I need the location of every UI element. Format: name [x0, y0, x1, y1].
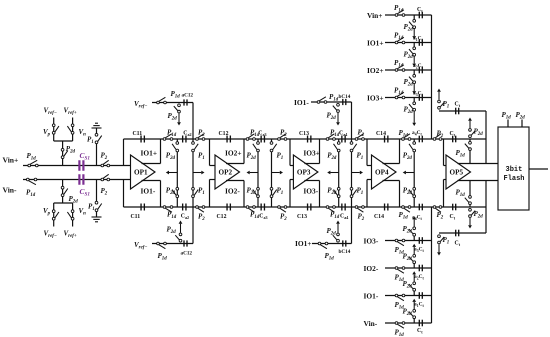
- wire IO1+ stack row: [385, 42, 432, 44]
- switch P1d Vref branch top: [157, 90, 181, 104]
- switch P1d stage3 bottom rail: [326, 206, 340, 221]
- capacitor CS1 top: [79, 151, 90, 171]
- svg-text:OP1: OP1: [134, 169, 148, 177]
- svg-text:aC12: aC12: [182, 93, 194, 99]
- switch P2d Vref branch top with Vcm arrow: [168, 104, 181, 126]
- node Vref- label top: [44, 107, 57, 117]
- switch P1d IO3+ row: [394, 87, 405, 99]
- node Vin- stack label: [364, 319, 378, 328]
- switch P1d IO2- row: [395, 267, 405, 284]
- capacitor bC14 top: [339, 94, 351, 105]
- node IO3- stack label: [364, 236, 379, 245]
- switch P1d stage4 bottom rail: [399, 206, 411, 221]
- wire OP5 output bottom: [458, 180, 499, 182]
- svg-text:bC14: bC14: [339, 249, 351, 255]
- switch P2d label top stage2: [247, 152, 257, 162]
- wire summing bus top: [431, 15, 433, 139]
- svg-text:IO3-: IO3-: [364, 236, 379, 245]
- switch Vp bottom: [43, 203, 59, 227]
- svg-text:Ct: Ct: [417, 328, 423, 335]
- svg-text:IO3+: IO3+: [367, 93, 384, 102]
- svg-text:Flash: Flash: [504, 175, 525, 183]
- switch P1d stage1 bottom rail: [163, 206, 177, 221]
- svg-text:IO2-: IO2-: [364, 264, 379, 273]
- svg-text:C14: C14: [376, 131, 386, 137]
- capacitor Ca2 bottom: [181, 204, 189, 221]
- wire Vin+ input rail: [23, 165, 131, 167]
- node IO1- output label: [141, 187, 156, 196]
- switch P1 label bottom stage1: [198, 187, 205, 197]
- wire IO2- stack row: [385, 267, 432, 269]
- arrow Vcm right stage1: [193, 171, 205, 175]
- wire OP2 input connector top: [210, 139, 216, 166]
- capacitor a1Ct IO1- row: [414, 292, 425, 308]
- svg-text:Ct: Ct: [450, 214, 456, 221]
- switch P2d label bottom stage3: [327, 187, 337, 197]
- svg-text:aC12: aC12: [181, 251, 193, 257]
- switch P2d IO1- branch with Vcm arrow: [327, 103, 340, 125]
- svg-text:Ct: Ct: [455, 241, 461, 248]
- wire common-mode column P1 stage2: [270, 139, 277, 207]
- svg-text:OP2: OP2: [219, 169, 233, 177]
- wire OP4 output top: [383, 139, 400, 164]
- wire OP5 feedback line B: [439, 181, 486, 234]
- switch P1d Vin- row: [395, 322, 405, 337]
- wire flash output: [529, 168, 548, 170]
- capacitor Ca4 bottom: [340, 204, 348, 221]
- switch P2d IO2- row with Vcm arrow: [403, 244, 417, 268]
- svg-text:IO1+: IO1+: [141, 149, 158, 158]
- switch P1 label bottom stage3: [357, 187, 364, 197]
- arrow Vcm right stage3: [352, 171, 364, 175]
- svg-text:Ct: Ct: [417, 7, 423, 14]
- capacitor C14 top: [376, 131, 388, 143]
- capacitor bC14 bottom: [339, 240, 351, 255]
- wire IO1- branch top: [311, 102, 352, 139]
- wire flash clock stub P2d: [516, 111, 526, 127]
- switch P2d OP5 bottom with Vcm arrow: [468, 208, 483, 228]
- switch P2d OP5 top with Vcm arrow: [468, 118, 483, 138]
- svg-text:Ca3: Ca3: [258, 131, 266, 138]
- svg-text:IO2+: IO2+: [225, 149, 242, 158]
- switch P1 label top stage1: [198, 152, 205, 162]
- switch P1 to ground top: [87, 133, 102, 145]
- switch P1 label top stage2: [277, 152, 284, 162]
- switch P2d IO3+ row with Vcm arrow: [404, 98, 417, 127]
- wire summing bus bottom: [431, 207, 433, 323]
- capacitor aC12 bottom: [181, 240, 193, 256]
- switch P2d IO1- row with Vcm arrow: [403, 271, 417, 295]
- switch P2 stage1 bottom rail: [196, 206, 206, 223]
- capacitor C12 top: [219, 131, 231, 143]
- wire Vin- stack row: [385, 322, 432, 324]
- wire Vref- branch top: [152, 103, 193, 140]
- svg-text:C11: C11: [133, 131, 143, 137]
- op-amp OP1: [131, 155, 156, 189]
- capacitor Ct Vin- row: [417, 320, 423, 335]
- capacitor a1Ct IO1+ row: [413, 36, 424, 46]
- switch P1d Vref branch bottom: [157, 242, 168, 262]
- switch P1d IO1- branch: [317, 93, 339, 103]
- svg-text:Ca4: Ca4: [340, 214, 348, 221]
- switch P2 stage2 bottom rail: [278, 206, 288, 223]
- switch P2d IO3- row with Vcm arrow: [403, 216, 417, 240]
- switch P1d Vin+ row: [394, 4, 405, 16]
- svg-text:IO1+: IO1+: [295, 239, 312, 248]
- wire common-mode column P2d stage2: [253, 139, 260, 207]
- ground bottom: [92, 212, 102, 222]
- svg-text:Vin-: Vin-: [364, 319, 378, 328]
- switch P1d stage3 top rail: [326, 129, 340, 141]
- wire to P1 reset top: [96, 143, 98, 166]
- switch Vn top: [67, 118, 86, 142]
- switch P2d IO1+ row with Vcm arrow: [404, 43, 417, 67]
- wire OP5 feedback line A: [439, 111, 486, 164]
- wire IO3- stack row: [385, 240, 432, 242]
- switch P2d label top stage4: [403, 152, 413, 162]
- switch P1 to ground bottom: [88, 201, 102, 212]
- capacitor C11 bottom: [131, 204, 145, 221]
- node IO2+ stack label: [367, 66, 384, 75]
- wire common-mode column P1 stage1: [192, 139, 199, 207]
- capacitor a3Ct IO3- row: [414, 237, 425, 253]
- svg-text:IO2-: IO2-: [225, 187, 240, 196]
- switch P2 stage3 bottom rail: [355, 206, 365, 223]
- wire common-mode column P2d stage3: [334, 139, 341, 207]
- capacitor Ct line A: [455, 102, 461, 115]
- wire OP4 output bottom: [383, 181, 400, 208]
- wire reference bracket top: [54, 140, 73, 142]
- wire OP1 output bottom: [142, 181, 161, 208]
- node IO1- stack label: [364, 291, 379, 300]
- wire OP5 input connector bottom: [444, 180, 447, 208]
- capacitor Ct OP5 bottom rail: [450, 204, 456, 221]
- svg-text:C14: C14: [374, 214, 384, 220]
- node Vin- label: [3, 186, 18, 195]
- node Vin+ label: [3, 156, 19, 165]
- capacitor CS1 bottom: [79, 174, 90, 197]
- svg-text:IO1-: IO1-: [294, 98, 309, 107]
- capacitor Ca3 top: [258, 131, 266, 143]
- switch P2d label bottom stage4: [403, 187, 413, 197]
- switch P1d stage1 top rail: [163, 129, 177, 141]
- wire common-mode column P2d stage1: [172, 139, 179, 207]
- capacitor C13 bottom: [297, 204, 311, 221]
- wire OP5 input connector top: [444, 139, 447, 166]
- ground top: [92, 123, 102, 133]
- capacitor Ct line B: [455, 230, 461, 248]
- switch P1d input top: [27, 152, 39, 167]
- wire IO3+ stack row: [385, 97, 432, 99]
- wire OP3 output top: [304, 139, 319, 164]
- node IO2- output label: [225, 187, 240, 196]
- wire OP3 input connector bottom: [290, 180, 293, 208]
- svg-text:C13: C13: [297, 214, 307, 220]
- switch P2d Vin+ row with Vcm arrow: [404, 15, 417, 39]
- svg-text:3bit: 3bit: [506, 166, 523, 174]
- wire IO1+ branch bottom: [312, 207, 352, 244]
- svg-text:Ca4: Ca4: [339, 131, 347, 138]
- svg-text:IO2+: IO2+: [367, 66, 384, 75]
- switch P2d IO2+ row with Vcm arrow: [404, 70, 417, 94]
- wire flash clock stub P1d: [502, 111, 512, 127]
- wire OP4 input connector bottom: [367, 180, 372, 208]
- svg-text:C11: C11: [131, 214, 141, 220]
- wire reference bracket bottom: [54, 202, 73, 204]
- node Vin+ stack label: [367, 11, 382, 20]
- wire Vin- input rail: [23, 179, 131, 181]
- switch P2 bottom input: [101, 174, 110, 196]
- node IO2+ output label: [225, 149, 242, 158]
- svg-text:OP5: OP5: [450, 169, 464, 177]
- node IO3+ output label: [303, 149, 320, 158]
- switch P2d label top stage3: [327, 152, 337, 162]
- capacitor a2Ct IO2+ row: [413, 63, 424, 73]
- capacitor a4Ct top rail: [412, 130, 423, 142]
- switch P1 line A with Vcm arrow: [437, 89, 449, 110]
- svg-text:IO1-: IO1-: [141, 187, 156, 196]
- capacitor Ca3 bottom: [259, 204, 267, 221]
- svg-text:C12: C12: [219, 131, 229, 137]
- switch P1d IO2+ row: [394, 59, 405, 71]
- wire IO2+ stack row: [385, 69, 432, 71]
- switch P1d OP5 reset top: [456, 139, 472, 164]
- switch P1 line B with Vcm arrow: [437, 235, 449, 256]
- switch P2d to reference top: [61, 141, 75, 166]
- svg-text:C13: C13: [299, 131, 309, 137]
- wire OP3 output bottom: [304, 181, 319, 208]
- wire bottom feedback rail: [124, 206, 487, 208]
- svg-text:Vin+: Vin+: [3, 156, 19, 165]
- wire OP1 input connector bottom: [123, 180, 125, 208]
- switch P2 summing top rail: [433, 130, 444, 141]
- op-amp OP5: [446, 155, 471, 189]
- capacitor Ct Vin+ row: [417, 7, 423, 18]
- node IO1+ stack label: [367, 38, 384, 47]
- wire top feedback rail: [124, 138, 487, 140]
- wire OP5 output top: [458, 163, 499, 165]
- switch P1d IO3- row: [395, 239, 405, 256]
- wire OP2 output bottom: [226, 181, 244, 208]
- switch P2d Vref branch bottom with Vcm arrow: [167, 221, 183, 243]
- switch P2 stage2 top rail: [278, 129, 288, 141]
- switch P1d OP5 reset bottom: [456, 181, 472, 208]
- op-amp OP2: [215, 155, 240, 189]
- wire common-mode column P1 stage3: [350, 139, 357, 207]
- switch P1 label top stage3: [357, 152, 364, 162]
- capacitor C13 top: [299, 131, 311, 143]
- capacitor Ca2 top: [183, 131, 192, 143]
- node IO2- stack label: [364, 264, 379, 273]
- switch P2d label top stage1: [166, 152, 176, 162]
- arrow Vcm left stage2: [247, 171, 259, 175]
- node IO3- output label: [303, 187, 318, 196]
- capacitor a3Ct IO3+ row: [413, 91, 424, 101]
- node Vref- branch label bottom: [134, 241, 147, 251]
- wire Vref- branch bottom: [152, 207, 193, 244]
- node Vref+ label top: [64, 107, 77, 117]
- node Vref- label bottom: [44, 230, 57, 240]
- svg-text:C12: C12: [217, 214, 227, 220]
- wire IO1- stack row: [385, 295, 432, 297]
- switch P1d input bottom: [26, 178, 37, 198]
- capacitor C12 bottom: [217, 204, 231, 221]
- op-amp OP3: [293, 155, 318, 189]
- svg-text:IO1-: IO1-: [364, 291, 379, 300]
- node Vref+ label bottom: [64, 230, 77, 240]
- capacitor Ct OP5 top rail: [450, 131, 456, 142]
- wire OP2 input connector bottom: [210, 180, 216, 208]
- svg-text:IO1+: IO1+: [367, 38, 384, 47]
- node IO1+ branch label bottom: [295, 239, 312, 248]
- svg-text:OP4: OP4: [375, 169, 389, 177]
- switch P1d IO1+ row: [394, 32, 405, 44]
- switch P2 stage3 top rail: [355, 129, 365, 141]
- switch P2d label bottom stage1: [166, 187, 176, 197]
- capacitor C14 bottom: [374, 204, 388, 221]
- switch P1d IO1+ branch: [318, 242, 334, 262]
- capacitor aC12 top: [182, 93, 194, 106]
- svg-text:bC14: bC14: [339, 94, 351, 100]
- switch P1 label bottom stage2: [277, 187, 284, 197]
- capacitor a4Ct bottom rail: [412, 204, 423, 222]
- svg-text:Ca2: Ca2: [183, 131, 191, 138]
- wire to P1 reset bottom: [96, 180, 98, 203]
- svg-text:IO3+: IO3+: [303, 149, 320, 158]
- switch P1d stage4 top rail: [399, 129, 411, 140]
- node IO1- branch label top: [294, 98, 309, 107]
- op-amp OP4: [372, 155, 397, 189]
- arrow Vcm right stage2: [272, 171, 284, 175]
- node IO3+ stack label: [367, 93, 384, 102]
- node IO1+ output label: [141, 149, 158, 158]
- wire OP4 input connector top: [367, 139, 372, 166]
- svg-text:IO3-: IO3-: [303, 187, 318, 196]
- arrow Vcm left stage4: [403, 171, 415, 175]
- wire OP3 input connector top: [290, 139, 293, 166]
- wire Vin+ stack row: [385, 14, 432, 16]
- switch P2d IO1+ branch with Vcm arrow: [327, 221, 340, 243]
- switch P2d Vin- row with Vcm arrow: [403, 299, 417, 323]
- capacitor a2Ct IO2- row: [414, 265, 425, 281]
- node Vref- branch label top: [134, 100, 147, 110]
- svg-text:Ct: Ct: [455, 102, 461, 109]
- switch P2 top input: [101, 152, 110, 167]
- capacitor Ca4 top: [339, 131, 347, 143]
- svg-text:OP3: OP3: [297, 169, 311, 177]
- svg-text:Ca3: Ca3: [259, 214, 267, 221]
- arrow Vcm left stage3: [327, 171, 339, 175]
- svg-text:Ct: Ct: [450, 131, 456, 138]
- capacitor C11 top: [133, 131, 145, 143]
- switch P1d IO1- row: [395, 294, 405, 311]
- switch P2d label bottom stage2: [247, 187, 257, 197]
- switch P2d to reference bottom: [61, 180, 78, 205]
- wire OP1 output top: [142, 139, 161, 164]
- arrow Vcm left stage1: [166, 171, 178, 175]
- wire common-mode column P2d stage4: [409, 139, 416, 207]
- block 3bit Flash ADC: [498, 127, 529, 210]
- wire OP2 output top: [226, 139, 244, 164]
- wire OP1 input connector top: [123, 139, 125, 166]
- svg-text:Vin-: Vin-: [3, 186, 18, 195]
- switch P1d stage2 bottom rail: [246, 206, 260, 221]
- switch P2 summing bottom rail: [433, 206, 444, 221]
- switch Vn bottom: [67, 203, 86, 227]
- switch Vp top: [43, 118, 59, 142]
- svg-text:Vin+: Vin+: [367, 11, 382, 20]
- switch P1d stage2 top rail: [246, 129, 260, 141]
- switch P2 stage1 top rail: [196, 129, 206, 141]
- svg-text:Ca2: Ca2: [181, 214, 189, 221]
